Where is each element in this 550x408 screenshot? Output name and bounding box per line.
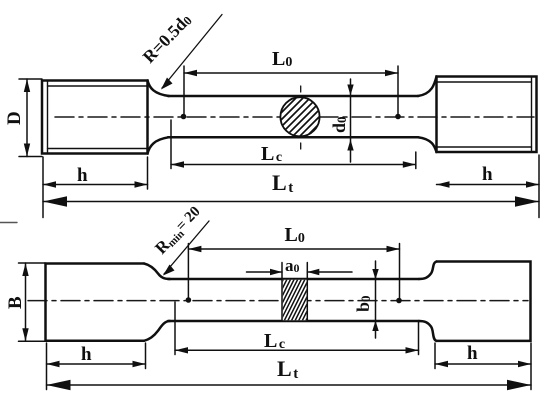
svg-text:B: B xyxy=(5,296,26,309)
D dimension extensions xyxy=(19,78,42,80)
h-right arrow left xyxy=(437,181,450,187)
h-left bottom extension right xyxy=(145,343,147,369)
svg-text:D: D xyxy=(4,111,25,125)
L0 bottom dimension line xyxy=(188,248,399,250)
a0 extension right xyxy=(306,263,308,280)
fillet right-bottom xyxy=(418,137,437,152)
h-right bottom arrow right xyxy=(518,361,531,367)
L0 arrow left xyxy=(184,70,197,76)
h-left bottom dimension line xyxy=(47,363,146,365)
Lt dimension line top specimen xyxy=(43,201,539,203)
b0 arrow bottom xyxy=(372,321,378,332)
svg-text:h: h xyxy=(467,343,478,364)
L0 arrow right xyxy=(385,70,398,76)
circle centre tick above xyxy=(300,86,302,92)
h-right extension xyxy=(538,155,540,218)
B arrow bottom xyxy=(22,328,28,341)
gauge point left bottom xyxy=(186,297,192,303)
fillet left-bottom xyxy=(148,137,170,153)
L0 extension line right xyxy=(397,66,399,114)
flat fillet right-bottom xyxy=(419,321,437,341)
flat fillet left-bottom xyxy=(144,321,170,341)
svg-text:h: h xyxy=(482,164,493,185)
centerline top specimen xyxy=(55,116,534,118)
h-left arrow left xyxy=(43,181,56,187)
Lt arrow right big xyxy=(515,196,539,207)
Lc arrow right xyxy=(403,161,416,167)
h-right bottom dimension line xyxy=(435,363,531,365)
D arrow bottom xyxy=(24,144,30,157)
a0 extension left xyxy=(281,263,283,280)
svg-text:L0: L0 xyxy=(285,224,305,246)
flat right grip xyxy=(437,262,531,341)
h-right arrow right xyxy=(526,181,539,187)
h-right bottom arrow left xyxy=(435,361,448,367)
a0 arrow right xyxy=(307,269,319,275)
L0 bottom extension right xyxy=(399,244,401,299)
flat gauge strip xyxy=(168,279,419,321)
a0 arrow left xyxy=(270,269,282,275)
a0 tail left xyxy=(247,271,283,273)
flat fillet right-top xyxy=(419,262,437,280)
hatched rect section mark xyxy=(257,268,336,332)
svg-text:a0: a0 xyxy=(285,256,300,275)
leader Rmin=20 xyxy=(164,221,209,274)
Lt bottom arrow left big xyxy=(47,380,71,391)
svg-text:d0: d0 xyxy=(329,116,349,133)
rod gauge section xyxy=(168,96,418,137)
svg-text:Lc: Lc xyxy=(264,330,285,352)
gauge point left xyxy=(181,114,187,120)
circle centre tick below xyxy=(300,143,302,149)
Lc bottom arrow right xyxy=(406,347,419,353)
h-left bottom arrow left xyxy=(47,361,60,367)
Lc bottom extension left xyxy=(174,302,176,355)
B dimension extensions xyxy=(19,262,46,264)
fillet left-top xyxy=(148,81,170,97)
leader arrow xyxy=(161,78,173,90)
d0 dimension line xyxy=(350,79,352,162)
b0 arrow top xyxy=(372,269,378,280)
leader R=0.5d0 xyxy=(162,15,222,89)
svg-text:h: h xyxy=(81,344,92,365)
svg-text:Lt: Lt xyxy=(277,356,298,382)
h-left bottom arrow right xyxy=(133,361,146,367)
Lc bottom dimension line xyxy=(175,349,419,351)
h-left extension right xyxy=(147,157,149,189)
Lc extension right xyxy=(415,152,417,169)
D dimension line xyxy=(26,79,28,157)
flat fillet left-top xyxy=(144,264,170,280)
Lc extension left xyxy=(170,120,172,169)
gauge point right bottom xyxy=(396,298,402,304)
Lt arrow left big xyxy=(43,196,67,207)
h-left arrow right xyxy=(135,181,148,187)
h-right dimension line xyxy=(437,184,540,186)
a0 tail right xyxy=(307,271,352,273)
fillet right-top xyxy=(418,77,437,97)
L0 bottom arrow right xyxy=(387,246,400,252)
b0 dimension line xyxy=(375,261,377,338)
h-left bottom extension left xyxy=(46,343,48,390)
h-right bottom extension right xyxy=(530,343,532,390)
centerline bottom specimen xyxy=(28,300,528,302)
D arrow top xyxy=(24,79,30,92)
B arrow top xyxy=(22,263,28,276)
L0 dimension line xyxy=(184,72,398,74)
svg-text:Lt: Lt xyxy=(272,170,293,196)
Lc dimension line xyxy=(171,164,416,166)
stray page line left edge xyxy=(0,222,17,224)
Lc bottom arrow left xyxy=(175,347,188,353)
h-left extension xyxy=(42,157,44,218)
L0 bottom arrow left xyxy=(188,246,201,252)
svg-text:Lc: Lc xyxy=(261,143,282,165)
Lc arrow left xyxy=(171,161,184,167)
left grip (round specimen) xyxy=(42,81,148,154)
svg-text:L0: L0 xyxy=(272,48,292,70)
h-right bottom extension left xyxy=(434,343,436,369)
d0 arrow bottom xyxy=(347,140,353,151)
B dimension line xyxy=(25,263,27,341)
h-left dimension line xyxy=(43,184,148,186)
flat left grip xyxy=(46,264,145,341)
leader arrow Rmin xyxy=(163,265,175,276)
d0 arrow top xyxy=(347,85,353,96)
svg-text:h: h xyxy=(77,165,88,186)
Lc bottom extension right xyxy=(418,322,420,355)
Lt bottom arrow right big xyxy=(507,380,531,391)
svg-text:b0: b0 xyxy=(353,295,373,312)
hatched circle section mark xyxy=(249,88,355,145)
Lt bottom dimension line xyxy=(47,384,532,386)
right grip (round specimen) xyxy=(437,77,537,153)
L0 bottom extension left xyxy=(187,244,189,299)
gauge point right xyxy=(395,114,401,120)
L0 extension line left xyxy=(183,66,185,114)
